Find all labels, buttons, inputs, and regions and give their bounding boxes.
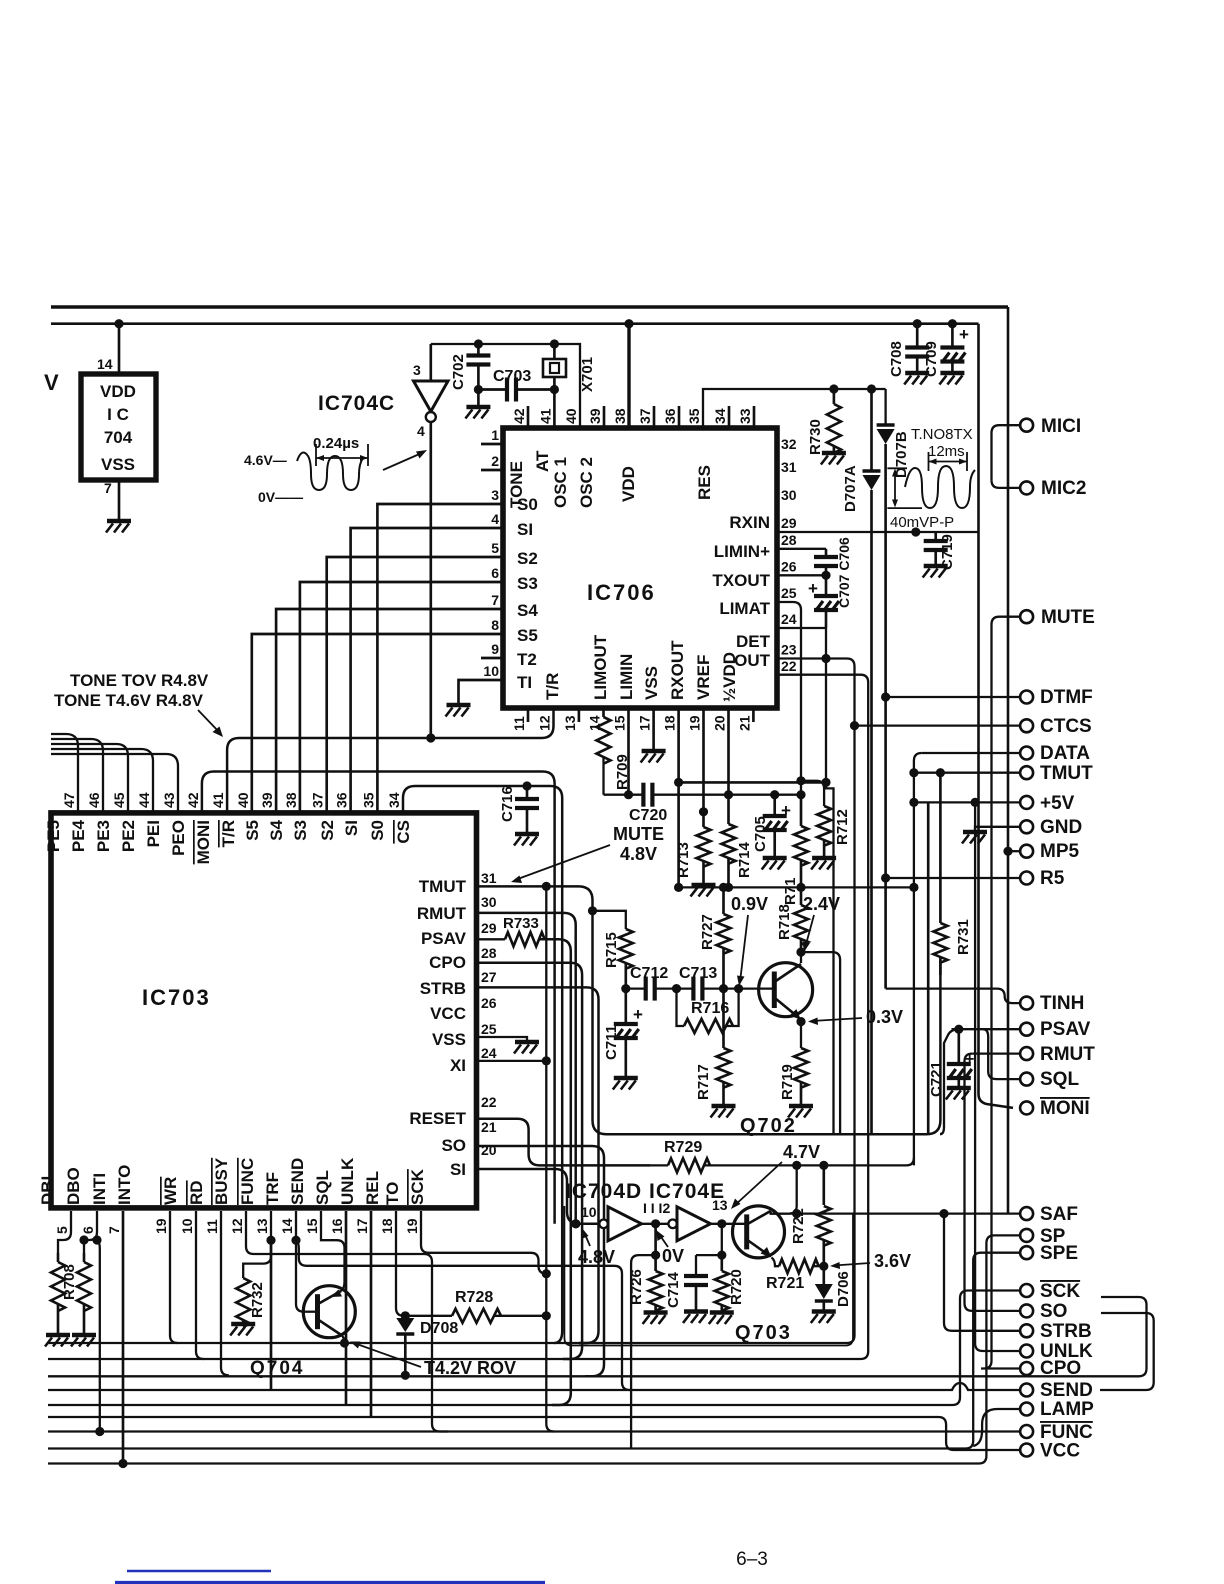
svg-text:SQL: SQL — [1040, 1069, 1079, 1090]
svg-text:GND: GND — [1040, 817, 1082, 838]
svg-text:S4: S4 — [517, 601, 538, 620]
capacitor C705 electrolytic — [770, 790, 779, 799]
svg-text:22: 22 — [481, 1094, 497, 1110]
svg-text:FUNC: FUNC — [238, 1158, 257, 1205]
wire LIMAT pin25 riser — [777, 602, 801, 795]
annotation 12ms arrows — [928, 452, 930, 471]
svg-text:IC704C: IC704C — [318, 392, 395, 415]
svg-text:0.24µs: 0.24µs — [313, 435, 359, 452]
wire right vertical bus from rail1 — [1007, 307, 1010, 1214]
wire X701 to pin 41 — [553, 390, 556, 429]
terminal PSAV — [1020, 1023, 1033, 1036]
wire CS line pin34 — [403, 786, 562, 1343]
ic IC704 supply block — [81, 374, 156, 480]
svg-text:VSS: VSS — [101, 455, 135, 474]
resistor R711 — [800, 795, 803, 826]
wire DTMF from D707B line — [881, 692, 890, 701]
svg-text:18: 18 — [662, 715, 678, 731]
diode D706 zener — [822, 1266, 825, 1284]
annotation TX sine wave — [905, 466, 975, 508]
svg-text:33: 33 — [737, 408, 753, 424]
wire MUTE terminal down to CPO — [981, 617, 1020, 1369]
svg-text:7: 7 — [106, 1226, 122, 1234]
wire IC704C input to pin40 riser — [431, 344, 580, 428]
terminal +5V — [1020, 796, 1033, 809]
wire XI pin24 — [477, 1060, 547, 1062]
ground GND terminal — [963, 830, 987, 835]
svg-text:C705: C705 — [752, 816, 769, 852]
wire IC704C input — [429, 344, 432, 381]
svg-text:TONE TOV R4.8V: TONE TOV R4.8V — [70, 671, 209, 690]
wire FUNC bus7 — [48, 1430, 1020, 1432]
svg-text:C711: C711 — [603, 1025, 620, 1060]
svg-text:T/R: T/R — [543, 673, 562, 700]
wire D707B line to TINH — [886, 989, 1020, 1004]
ground pin17 — [642, 749, 666, 754]
svg-text:R727: R727 — [699, 914, 716, 950]
svg-text:5: 5 — [54, 1226, 70, 1234]
svg-text:30: 30 — [481, 894, 497, 910]
terminal RMUT — [1020, 1047, 1033, 1060]
ic IC706 top pin stubs — [527, 406, 530, 428]
svg-text:T/R: T/R — [219, 820, 238, 847]
svg-text:R728: R728 — [455, 1289, 493, 1306]
terminal UNLK — [1020, 1345, 1033, 1358]
capacitor C720 — [641, 783, 645, 807]
svg-text:C709: C709 — [923, 341, 940, 377]
svg-text:35: 35 — [686, 408, 702, 424]
svg-text:39: 39 — [259, 792, 275, 808]
svg-text:13: 13 — [254, 1218, 270, 1234]
svg-text:4.7V: 4.7V — [783, 1142, 820, 1162]
wire right vertical from rail2 — [979, 324, 1014, 1108]
svg-text:S0: S0 — [368, 820, 387, 841]
svg-text:R715: R715 — [603, 932, 620, 968]
wire SPE from bus8 — [48, 1253, 1020, 1449]
svg-text:C720: C720 — [629, 807, 667, 824]
wire +5V terminal — [909, 798, 918, 807]
terminal SCK — [1020, 1284, 1033, 1297]
capacitor C719 — [934, 532, 937, 541]
svg-text:38: 38 — [283, 792, 299, 808]
resistor R729 — [668, 1158, 710, 1172]
junction base line left — [621, 984, 630, 993]
svg-text:24: 24 — [481, 1045, 497, 1061]
svg-text:28: 28 — [481, 945, 497, 961]
svg-text:SI: SI — [342, 820, 361, 836]
diode D707B — [884, 389, 886, 425]
svg-text:32: 32 — [781, 436, 797, 452]
resistor R732 — [243, 1240, 271, 1278]
wire R5 from D707B line — [881, 873, 890, 882]
mark blue underline 1 — [127, 1570, 271, 1573]
svg-text:VDD: VDD — [100, 382, 136, 401]
svg-text:30: 30 — [781, 487, 797, 503]
svg-text:TXOUT: TXOUT — [712, 571, 770, 590]
terminal GND — [1020, 820, 1033, 833]
svg-text:DTMF: DTMF — [1040, 687, 1093, 708]
svg-text:S4: S4 — [267, 819, 286, 840]
svg-text:RD: RD — [187, 1180, 206, 1205]
terminal SEND — [1020, 1384, 1033, 1397]
svg-text:3: 3 — [491, 487, 499, 503]
svg-text:26: 26 — [781, 559, 797, 575]
svg-text:S5: S5 — [243, 820, 262, 841]
svg-text:D706: D706 — [835, 1271, 852, 1307]
svg-text:IC706: IC706 — [587, 580, 656, 605]
gate IC704C inverter — [414, 381, 449, 412]
svg-text:S5: S5 — [517, 626, 538, 645]
svg-text:10: 10 — [581, 1204, 597, 1220]
svg-text:4.8V: 4.8V — [578, 1247, 615, 1267]
svg-text:DBO: DBO — [64, 1167, 83, 1205]
wire PSAV terminal — [952, 1028, 1020, 1030]
svg-text:X701: X701 — [579, 357, 596, 392]
svg-text:RESET: RESET — [409, 1109, 466, 1128]
wire DATA from x913 corner — [922, 752, 1020, 754]
svg-text:40: 40 — [235, 792, 251, 808]
resistor R707 — [57, 1253, 60, 1262]
resistor R728 — [405, 1315, 452, 1317]
svg-text:S2: S2 — [517, 549, 538, 568]
svg-text:RXIN: RXIN — [729, 513, 770, 532]
capacitor C712 — [626, 987, 646, 989]
resistor R719 — [794, 1048, 808, 1088]
resistor R717 — [722, 989, 725, 1048]
svg-text:WR: WR — [161, 1177, 180, 1205]
terminal VCC — [1020, 1444, 1033, 1457]
svg-text:R718: R718 — [776, 904, 793, 940]
terminal MUTE — [1020, 610, 1033, 623]
svg-text:PSAV: PSAV — [421, 929, 467, 948]
wire PE bus curves to left — [51, 734, 78, 813]
wire GND terminal to ground — [975, 827, 1020, 831]
wire pin7 to bus8 — [122, 1211, 125, 1464]
svg-text:PE2: PE2 — [119, 820, 138, 852]
ground C702 — [466, 405, 490, 410]
svg-text:MONI: MONI — [194, 820, 213, 864]
annotation arrow to IC704C output — [383, 452, 424, 470]
svg-text:REL: REL — [363, 1171, 382, 1205]
svg-text:SCK: SCK — [408, 1168, 427, 1205]
svg-text:SPE: SPE — [1040, 1243, 1078, 1264]
svg-text:SO: SO — [1040, 1301, 1067, 1322]
wire pin6 hook — [84, 1211, 97, 1253]
wire R726 branch left down — [631, 1255, 656, 1448]
svg-text:VDD: VDD — [619, 466, 638, 502]
svg-text:12: 12 — [229, 1218, 245, 1234]
svg-text:R720: R720 — [728, 1269, 745, 1305]
svg-text:4.6V—: 4.6V— — [244, 452, 287, 468]
svg-text:19: 19 — [153, 1218, 169, 1234]
svg-text:C702: C702 — [450, 354, 467, 390]
svg-text:20: 20 — [481, 1142, 497, 1158]
ground pin25 VSS — [515, 1040, 539, 1045]
svg-text:S0: S0 — [517, 495, 538, 514]
transistor Q703 — [733, 1206, 785, 1258]
svg-text:STRB: STRB — [420, 979, 466, 998]
svg-text:13: 13 — [712, 1197, 728, 1213]
svg-text:MUTE: MUTE — [1041, 607, 1095, 628]
ic IC703 body — [51, 813, 477, 1208]
resistor R727 — [722, 887, 725, 914]
svg-text:14: 14 — [279, 1218, 295, 1234]
svg-text:CTCS: CTCS — [1040, 716, 1092, 737]
svg-text:42: 42 — [185, 792, 201, 808]
svg-text:37: 37 — [637, 408, 653, 424]
terminal FUNC — [1020, 1425, 1033, 1438]
wire pin SEND to Q704 base — [296, 1211, 304, 1312]
terminal DTMF — [1020, 691, 1033, 704]
gate IC704D — [599, 1220, 608, 1229]
svg-text:Q704: Q704 — [250, 1358, 304, 1379]
terminal SO — [1020, 1304, 1033, 1317]
wire Q704 emitter to bus1 — [341, 1335, 345, 1344]
wire VSS pin25 to ground — [477, 1037, 527, 1041]
svg-text:11: 11 — [204, 1219, 220, 1234]
svg-text:15: 15 — [612, 715, 628, 731]
svg-text:I C: I C — [107, 405, 129, 424]
svg-text:8: 8 — [491, 617, 499, 633]
wire pin SCK hook right — [421, 1211, 546, 1274]
svg-text:SEND: SEND — [288, 1158, 307, 1205]
wire Q702 collector — [800, 952, 802, 963]
diode D708 — [401, 1311, 410, 1320]
svg-text:38: 38 — [612, 408, 628, 424]
wire pin FUNC hook right — [246, 1211, 448, 1432]
mark blue underline 2 — [115, 1581, 545, 1584]
svg-text:7: 7 — [491, 592, 499, 608]
svg-text:+5V: +5V — [1040, 793, 1075, 814]
resistor R730 — [829, 384, 838, 393]
wire SP from bottom bus9 — [48, 1235, 1020, 1463]
wire SO pin21 — [477, 1146, 604, 1376]
svg-text:TONE T4.6V R4.8V: TONE T4.6V R4.8V — [54, 691, 204, 710]
svg-text:T.NO8TX: T.NO8TX — [911, 426, 973, 443]
terminal SAF — [1020, 1207, 1033, 1220]
svg-text:PE4: PE4 — [69, 819, 88, 852]
wire C720 line — [604, 794, 644, 796]
svg-text:27: 27 — [481, 969, 497, 985]
svg-text:OSC 1: OSC 1 — [551, 457, 570, 508]
svg-text:6–3: 6–3 — [736, 1549, 768, 1570]
resistor R715 — [593, 911, 626, 929]
svg-text:34: 34 — [386, 792, 402, 808]
wire vertical bus x928 — [927, 802, 930, 1134]
resistor R733 — [477, 938, 505, 940]
annotation amplitude bracket — [887, 467, 907, 469]
resistor R720 — [720, 1255, 723, 1271]
capacitor C721 — [957, 1029, 960, 1064]
svg-text:CPO: CPO — [429, 953, 466, 972]
svg-text:7: 7 — [104, 480, 112, 496]
terminal MIC1 — [1020, 419, 1033, 432]
svg-text:PEI: PEI — [144, 820, 163, 847]
svg-text:41: 41 — [537, 408, 553, 424]
svg-text:SEND: SEND — [1040, 1380, 1093, 1401]
svg-text:12ms: 12ms — [928, 443, 965, 460]
svg-text:CS: CS — [394, 820, 413, 844]
resistor R709 — [602, 708, 605, 717]
wire TMUT pin31 — [477, 886, 941, 1134]
svg-text:PEO: PEO — [169, 820, 188, 856]
svg-text:29: 29 — [781, 515, 797, 531]
svg-text:SQL: SQL — [313, 1170, 332, 1205]
svg-text:BUSY: BUSY — [212, 1157, 231, 1205]
wire pin UNLK down — [345, 1211, 348, 1405]
svg-text:35: 35 — [360, 792, 376, 808]
wire pin BUSY to bus3 — [221, 1211, 229, 1375]
wire bus4b right hook — [1100, 1313, 1154, 1390]
wire pin22 down to bus2 — [777, 675, 868, 1359]
transistor Q702 — [759, 963, 813, 1017]
svg-text:36: 36 — [662, 408, 678, 424]
svg-text:UNLK: UNLK — [338, 1157, 357, 1205]
wire SEND bus4 — [48, 1383, 1020, 1390]
svg-text:VSS: VSS — [432, 1030, 466, 1049]
svg-text:704: 704 — [104, 428, 133, 447]
svg-text:TINH: TINH — [1040, 993, 1084, 1014]
svg-text:43: 43 — [161, 792, 177, 808]
svg-text:25: 25 — [781, 585, 797, 601]
resistor R716 loop — [677, 989, 685, 1026]
wire S0 staircase — [377, 504, 503, 813]
svg-text:OUT: OUT — [734, 651, 771, 670]
capacitor C703 — [478, 388, 507, 391]
diode D707A — [867, 384, 876, 393]
resistor R722 — [822, 1165, 825, 1205]
svg-text:LIMOUT: LIMOUT — [591, 634, 610, 700]
wire pin17 VSS ground — [652, 708, 655, 750]
wire pin31 branch down to R728 — [546, 886, 554, 1431]
svg-text:3.6V: 3.6V — [874, 1251, 911, 1271]
wire bus3 right hook — [48, 1297, 1147, 1376]
terminal CPO — [1020, 1362, 1033, 1375]
svg-text:SI: SI — [450, 1160, 466, 1179]
wire SAF line from Q703 collector — [770, 1212, 1020, 1214]
svg-text:29: 29 — [481, 920, 497, 936]
svg-text:13: 13 — [562, 715, 578, 731]
ground T1 — [447, 703, 471, 708]
wire Q702 emitter node — [800, 1020, 802, 1048]
wire link pin18 to pin24 column — [679, 781, 826, 784]
svg-text:MIC2: MIC2 — [1041, 478, 1086, 499]
terminal MP5 — [1020, 845, 1033, 858]
svg-text:PE5: PE5 — [44, 820, 63, 852]
wire RMUT terminal — [972, 1052, 1019, 1054]
wire MIC1 terminal — [992, 425, 1021, 480]
capacitor C707 electrolytic — [825, 575, 828, 596]
svg-text:23: 23 — [781, 642, 797, 658]
svg-text:4: 4 — [491, 511, 499, 527]
svg-text:2.4V: 2.4V — [803, 894, 840, 914]
resistor R714 — [727, 795, 730, 824]
svg-text:C714: C714 — [665, 1271, 682, 1308]
wire SQL terminal — [996, 1078, 1020, 1080]
svg-text:Q702: Q702 — [740, 1115, 797, 1137]
wire top supply rail 1 — [51, 305, 1008, 309]
svg-text:25: 25 — [481, 1021, 497, 1037]
svg-text:31: 31 — [781, 459, 797, 475]
svg-text:C719: C719 — [939, 534, 956, 570]
svg-text:R729: R729 — [664, 1139, 702, 1156]
wire pin RD to bus2 — [196, 1211, 204, 1359]
svg-text:SI: SI — [517, 520, 533, 539]
resistor R708 — [83, 1253, 86, 1262]
wire TMUT terminal — [909, 768, 918, 777]
terminal LAMP — [1020, 1403, 1033, 1416]
svg-text:V: V — [44, 370, 59, 395]
svg-text:TRF: TRF — [263, 1172, 282, 1205]
svg-text:PSAV: PSAV — [1040, 1019, 1091, 1040]
svg-text:LIMIN+: LIMIN+ — [714, 542, 770, 561]
svg-text:R713: R713 — [675, 842, 692, 878]
svg-text:VSS: VSS — [642, 666, 661, 700]
svg-text:17: 17 — [637, 715, 653, 731]
terminal MIC2 — [1020, 481, 1033, 494]
wire pin TRF down — [270, 1240, 273, 1390]
wire UNLK from +5V vertical — [975, 802, 1019, 1351]
svg-text:DBI: DBI — [38, 1176, 57, 1205]
wire Q703 collector to 4.7V node — [769, 1211, 771, 1214]
svg-text:S3: S3 — [517, 574, 538, 593]
resistor R731 — [939, 773, 942, 923]
svg-text:R708: R708 — [61, 1264, 78, 1300]
svg-text:R721: R721 — [766, 1275, 804, 1292]
wire VDD pin38 riser — [624, 319, 633, 328]
capacitor C702 — [474, 339, 483, 348]
wire top supply rail 2 — [51, 322, 979, 325]
wire LAMP hook — [973, 1409, 1019, 1446]
svg-text:STRB: STRB — [1040, 1321, 1092, 1342]
wire IC704C output down to T/R line — [429, 422, 432, 738]
svg-text:6: 6 — [491, 565, 499, 581]
wire Q702 collector branch right — [801, 952, 840, 1134]
svg-text:RXOUT: RXOUT — [668, 640, 687, 700]
enclosure Q703 box — [564, 1206, 853, 1346]
svg-text:S2: S2 — [318, 820, 337, 841]
resistor R718 — [800, 887, 803, 905]
svg-text:47: 47 — [61, 792, 77, 808]
svg-text:16: 16 — [329, 1218, 345, 1234]
svg-text:R71: R71 — [782, 877, 799, 905]
wire R714 R711 node line — [679, 886, 914, 888]
svg-text:I I I2: I I I2 — [643, 1200, 670, 1216]
gate IC704E — [668, 1220, 677, 1229]
svg-text:40mVP-P: 40mVP-P — [890, 514, 954, 531]
svg-text:+: + — [959, 325, 969, 344]
svg-text:5: 5 — [491, 540, 499, 556]
wire CPO pin28 — [477, 963, 582, 1359]
capacitor C713 — [677, 987, 694, 989]
junction X701 bottom — [550, 385, 559, 394]
svg-text:RES: RES — [695, 465, 714, 500]
wire STRB from R729 vertical — [944, 1214, 1020, 1331]
svg-text:12: 12 — [537, 715, 553, 731]
wire Q704 collector up to pin SQL — [321, 1211, 345, 1291]
wire pin SEND branch right — [296, 1240, 630, 1390]
svg-text:DATA: DATA — [1040, 743, 1090, 764]
terminal SPE — [1020, 1246, 1033, 1259]
wire pin15 stub — [627, 708, 630, 795]
wire SCK from bus5 — [48, 1291, 1020, 1406]
svg-text:36: 36 — [334, 792, 350, 808]
wire RXIN pin29 — [777, 531, 979, 533]
wire pin WR to bus1 — [170, 1211, 178, 1343]
wire VCC route bus6 — [48, 1417, 1020, 1450]
svg-text:C712: C712 — [630, 965, 668, 982]
svg-text:MONI: MONI — [1040, 1098, 1090, 1119]
